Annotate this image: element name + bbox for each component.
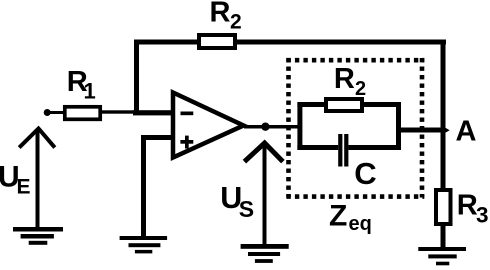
svg-text:R: R <box>334 63 355 95</box>
svg-text:R: R <box>457 190 478 222</box>
svg-text:Z: Z <box>329 200 347 233</box>
svg-text:R: R <box>210 0 231 29</box>
svg-text:A: A <box>456 115 477 147</box>
svg-text:3: 3 <box>476 202 489 227</box>
svg-text:S: S <box>239 196 254 222</box>
svg-text:1: 1 <box>84 78 96 103</box>
svg-text:2: 2 <box>230 11 242 34</box>
svg-text:E: E <box>17 176 31 199</box>
svg-text:C: C <box>354 156 376 191</box>
svg-text:eq: eq <box>349 213 372 235</box>
svg-text:2: 2 <box>355 78 366 100</box>
